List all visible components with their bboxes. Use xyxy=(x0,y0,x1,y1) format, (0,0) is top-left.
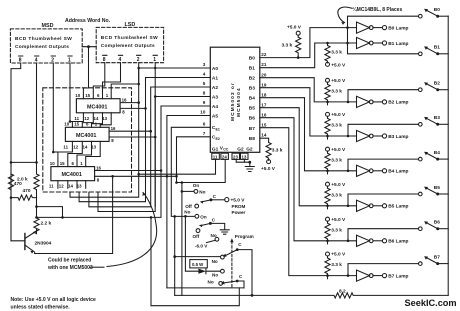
svg-text:+5.0 V: +5.0 V xyxy=(331,112,346,118)
svg-text:Note: Use +5.0 V on all logic: Note: Use +5.0 V on all logic device xyxy=(11,297,97,303)
wire rail continues to transistor base xyxy=(11,198,25,241)
svg-text:+5.0 V: +5.0 V xyxy=(231,197,246,203)
wire pin 22 B0 net xyxy=(260,16,418,59)
svg-text:17: 17 xyxy=(261,103,267,108)
svg-text:B0: B0 xyxy=(434,7,440,13)
svg-text:Program: Program xyxy=(235,234,254,239)
svg-text:B8: B8 xyxy=(249,136,255,142)
svg-text:No: No xyxy=(184,210,190,215)
wire node A4 staircase xyxy=(37,106,211,219)
svg-text:B7 Lamp: B7 Lamp xyxy=(388,273,408,279)
svg-text:MSD: MSD xyxy=(42,23,54,29)
wire node A0 staircase xyxy=(70,67,210,198)
svg-text:11: 11 xyxy=(213,154,218,159)
op-amp U3 MC4001 bottom xyxy=(49,161,102,189)
switch SW1 BCD thumbwheel MSD box xyxy=(10,29,82,64)
svg-text:5: 5 xyxy=(203,81,206,86)
svg-text:Complement Outputs: Complement Outputs xyxy=(15,44,69,50)
wire MSD 8-bar stub to left rail xyxy=(11,63,21,241)
wire program feed vertical xyxy=(173,215,220,295)
node SeekIC watermark xyxy=(405,298,457,308)
node Note text xyxy=(11,297,97,311)
svg-text:2.0 k: 2.0 k xyxy=(17,177,28,183)
resistor R B1 pull-up 3.3k xyxy=(325,43,346,69)
switch S2 ground switch xyxy=(184,210,215,239)
svg-text:B4: B4 xyxy=(249,96,255,102)
wire pin 23 to ground node xyxy=(236,159,250,162)
svg-text:18: 18 xyxy=(261,92,267,97)
svg-text:4: 4 xyxy=(119,57,122,63)
resistor R B6 pull-up 3.3k xyxy=(325,217,346,244)
switch SW2 BCD thumbwheel LSD box xyxy=(96,27,163,63)
wire node A5 staircase to 2.2k xyxy=(167,116,210,288)
wire pin 19 B3 net xyxy=(260,88,418,138)
svg-text:B5 Lamp: B5 Lamp xyxy=(388,204,408,210)
svg-text:BCD Thumbwheel SW: BCD Thumbwheel SW xyxy=(15,36,72,42)
svg-text:16: 16 xyxy=(96,165,101,170)
wire pin 11 under chip xyxy=(137,159,215,175)
svg-text:470: 470 xyxy=(23,188,31,194)
svg-text:A3: A3 xyxy=(212,94,218,100)
wire pin 13 to ground node xyxy=(244,159,251,163)
wire U3 output 8 to node A5 xyxy=(95,175,178,178)
svg-text:3.3 k: 3.3 k xyxy=(331,89,342,95)
svg-text:MCM5003 or: MCM5003 or xyxy=(230,82,236,121)
wire node CE2 to Vcc rail xyxy=(175,137,210,184)
svg-text:15: 15 xyxy=(74,122,79,127)
op-amp G2 buffer B2 lamp xyxy=(357,96,409,107)
svg-text:Off: Off xyxy=(193,234,200,239)
svg-text:B5: B5 xyxy=(249,106,255,112)
svg-text:+5.0 V: +5.0 V xyxy=(331,252,346,258)
svg-text:3.3 k: 3.3 k xyxy=(331,123,342,129)
svg-text:B1: B1 xyxy=(249,65,255,71)
svg-text:¼MC14B9L, 8 Places: ¼MC14B9L, 8 Places xyxy=(353,6,403,13)
svg-text:14: 14 xyxy=(94,116,99,121)
wire pin 16 B6 net xyxy=(260,118,418,242)
svg-text:G2: G2 xyxy=(237,146,244,152)
op-amp G3 buffer B3 lamp xyxy=(357,130,409,141)
svg-text:13: 13 xyxy=(242,154,247,159)
node Program dashed gang line xyxy=(230,234,254,288)
svg-text:14: 14 xyxy=(68,184,73,189)
wire MSD 1-bar stub to MC4001 U2 pin 10 xyxy=(69,63,71,122)
wire pin 21 B1 net xyxy=(260,42,418,68)
wire resistor node link xyxy=(37,207,63,218)
svg-text:Complement Outputs: Complement Outputs xyxy=(101,43,155,49)
svg-text:9: 9 xyxy=(203,100,206,105)
svg-text:On: On xyxy=(200,215,207,220)
resistor R B5 pull-up 3.3k xyxy=(325,182,346,209)
svg-text:G1: G1 xyxy=(212,146,219,152)
switch S1 PROM power on-off xyxy=(181,183,246,215)
svg-text:MC4001: MC4001 xyxy=(62,172,82,178)
svg-text:B6: B6 xyxy=(434,220,440,226)
svg-text:B3: B3 xyxy=(434,115,440,121)
svg-text:16: 16 xyxy=(111,126,116,131)
svg-text:10: 10 xyxy=(75,93,80,98)
ground symbol below chip xyxy=(245,162,254,171)
switch S B5 xyxy=(419,185,449,196)
svg-text:B7: B7 xyxy=(249,126,255,132)
wire U3 output 16 to node A4 xyxy=(95,169,163,172)
svg-text:1: 1 xyxy=(153,57,156,63)
wire LSD 4-bar stub to MC4001 U1 pin 6 xyxy=(103,63,121,99)
svg-text:Could be replaced: Could be replaced xyxy=(48,258,91,264)
svg-text:-6.0 V: -6.0 V xyxy=(195,244,208,249)
svg-text:B1 Lamp: B1 Lamp xyxy=(388,41,408,47)
svg-text:20: 20 xyxy=(261,72,267,77)
svg-text:B3: B3 xyxy=(249,86,255,92)
svg-text:A4: A4 xyxy=(212,104,218,110)
svg-text:B5: B5 xyxy=(434,185,440,191)
op-amp U1 MC4001 top xyxy=(74,93,127,121)
switch S B0 xyxy=(419,7,449,18)
switch S B4 xyxy=(419,150,449,161)
svg-text:MCM5004: MCM5004 xyxy=(236,87,242,117)
switch S5 program lower xyxy=(208,274,245,288)
svg-text:No: No xyxy=(199,190,205,195)
wire bottom programming bus xyxy=(167,287,244,289)
node MC14B9L label with arrow xyxy=(338,6,403,25)
wire right program bus xyxy=(447,16,449,295)
svg-text:B2 Lamp: B2 Lamp xyxy=(388,100,408,106)
ground symbol S2 xyxy=(210,223,229,234)
resistor R 0.5 W label box xyxy=(190,260,208,268)
wire S1 rail from Vcc line xyxy=(181,183,183,296)
svg-text:SeekIC.com: SeekIC.com xyxy=(405,298,457,308)
wire node CE1 to PROM power switch xyxy=(171,127,210,216)
svg-text:Address Word No.: Address Word No. xyxy=(65,18,111,24)
node MSD label xyxy=(42,23,54,29)
svg-text:B2: B2 xyxy=(249,76,255,82)
wire between boxes with junction xyxy=(82,45,96,98)
svg-text:10: 10 xyxy=(64,122,69,127)
svg-text:Power: Power xyxy=(232,210,246,215)
svg-text:21: 21 xyxy=(261,62,267,67)
svg-text:B0 Lamp: B0 Lamp xyxy=(388,25,408,31)
wire pin 15 B7 net xyxy=(260,128,418,277)
svg-text:4: 4 xyxy=(203,72,206,77)
svg-text:3.3 k: 3.3 k xyxy=(331,227,342,233)
svg-text:11: 11 xyxy=(49,184,54,189)
svg-text:B3 Lamp: B3 Lamp xyxy=(388,134,408,140)
svg-text:+5.0 V: +5.0 V xyxy=(331,78,346,84)
switch S B2 xyxy=(419,81,449,92)
wire pin 17 B5 net xyxy=(260,108,418,207)
op-amp G1 buffer B1 lamp xyxy=(357,37,409,48)
svg-text:14: 14 xyxy=(83,144,88,149)
wire node A3 staircase to resistor node xyxy=(98,95,210,211)
resistor 470 vertical left xyxy=(8,162,22,197)
svg-text:12: 12 xyxy=(73,144,78,149)
op-amp G0 buffer B0 lamp xyxy=(357,22,409,33)
diode D1 xyxy=(184,215,224,278)
switch S B1 xyxy=(419,45,449,56)
resistor R B2 pull-up 3.3k xyxy=(325,78,346,105)
wire U2 outputs to U3 inputs xyxy=(52,141,100,166)
node Could be replaced note with arrow xyxy=(47,193,157,271)
wire pin 24 Vcc to PROM power switch rail xyxy=(177,159,226,183)
op-amp U2 MC4001 middle xyxy=(63,122,116,150)
svg-text:with one MCM5003: with one MCM5003 xyxy=(47,265,93,271)
wire pin 20 B2 net xyxy=(260,78,418,104)
resistor 2.0k vertical xyxy=(17,162,39,206)
wire MSD 4-bar stub down to resistor node xyxy=(36,63,38,162)
svg-text:+5.0 V: +5.0 V xyxy=(331,147,346,153)
svg-text:3.3 k: 3.3 k xyxy=(331,157,342,163)
wire U2 output 16 to node A2 xyxy=(109,130,152,133)
svg-text:15: 15 xyxy=(85,93,90,98)
wire LSD 8-bar stub to MC4001 U1 pin 10 xyxy=(93,63,105,99)
svg-text:24: 24 xyxy=(222,154,227,159)
svg-text:+5.0 V: +5.0 V xyxy=(331,63,346,69)
svg-text:11: 11 xyxy=(63,144,68,149)
svg-text:B1: B1 xyxy=(434,45,440,51)
svg-text:8: 8 xyxy=(103,57,106,63)
op-amp G6 buffer B6 lamp xyxy=(357,235,409,246)
wire node A1 staircase xyxy=(79,78,210,202)
resistor R B8 pull-up 3.3k xyxy=(260,138,283,172)
resistor R B3 pull-up 3.3k xyxy=(325,112,346,139)
transistor Q1 2N3904 xyxy=(25,230,52,254)
svg-text:22: 22 xyxy=(261,52,267,57)
svg-text:0.5 W: 0.5 W xyxy=(192,262,204,267)
resistor 2.2k vertical xyxy=(34,205,52,233)
svg-text:10: 10 xyxy=(50,161,55,166)
svg-text:3.3 k: 3.3 k xyxy=(272,148,283,154)
svg-text:16: 16 xyxy=(261,113,267,118)
wire U3 bottom pin stubs xyxy=(58,181,86,189)
wire top horizontal to resistor node xyxy=(10,161,38,164)
svg-text:2: 2 xyxy=(137,57,140,63)
switch S4 program upper xyxy=(212,242,254,297)
switch S B3 xyxy=(419,115,449,126)
svg-text:B4 Lamp: B4 Lamp xyxy=(388,169,408,175)
svg-text:3.3 k: 3.3 k xyxy=(282,43,293,49)
svg-text:19: 19 xyxy=(261,82,267,87)
switch S3 -6V selector xyxy=(195,233,219,249)
switch S B6 xyxy=(419,220,449,231)
op-amp G4 buffer B4 lamp xyxy=(357,165,409,176)
wire MSD 2-bar stub to MC4001 U3 pin 10 xyxy=(52,63,54,152)
wire U1 output 16 to node A0 xyxy=(120,101,140,104)
node LSD label xyxy=(125,22,136,28)
svg-text:2.2 k: 2.2 k xyxy=(41,221,52,227)
svg-text:15: 15 xyxy=(60,161,65,166)
node Address Word No. label xyxy=(65,18,111,24)
svg-text:16: 16 xyxy=(122,97,127,102)
wire U1 output 8 to node A1 xyxy=(120,107,147,110)
svg-text:3.3 k: 3.3 k xyxy=(331,262,342,268)
op-amp G7 buffer B7 lamp xyxy=(357,270,409,281)
resistor R B4 pull-up 3.3k xyxy=(325,147,346,174)
svg-text:MC4001: MC4001 xyxy=(76,133,96,139)
svg-text:+5.0 V: +5.0 V xyxy=(287,25,302,31)
svg-text:12: 12 xyxy=(59,184,64,189)
svg-text:15: 15 xyxy=(261,123,267,128)
op-amp U4 MCM5003 PROM xyxy=(200,47,267,159)
wire lower return bus xyxy=(151,288,239,306)
svg-text:3.3 k: 3.3 k xyxy=(331,192,342,198)
svg-text:A2: A2 xyxy=(212,85,218,91)
svg-text:B2: B2 xyxy=(434,81,440,87)
svg-text:+5.0 V: +5.0 V xyxy=(261,166,276,172)
switch S B7 xyxy=(419,254,449,265)
svg-text:8.2: 8.2 xyxy=(339,288,346,294)
wire pin 18 B4 net xyxy=(260,98,418,172)
svg-text:unless stated otherwise.: unless stated otherwise. xyxy=(11,305,71,311)
svg-text:11: 11 xyxy=(74,116,79,121)
svg-text:B6 Lamp: B6 Lamp xyxy=(388,239,408,245)
node dashed replacement outline around gates xyxy=(43,88,132,192)
svg-text:BCD Thumbwheel SW: BCD Thumbwheel SW xyxy=(101,35,158,41)
svg-text:B6: B6 xyxy=(249,116,255,122)
svg-text:G2: G2 xyxy=(246,146,253,152)
svg-text:+5.0 V: +5.0 V xyxy=(331,217,346,223)
wire U2 output 8 to node A3 xyxy=(109,136,156,139)
svg-text:7: 7 xyxy=(203,131,206,136)
svg-text:B4: B4 xyxy=(434,150,440,156)
svg-text:+5.0 V: +5.0 V xyxy=(331,182,346,188)
svg-text:E1: E1 xyxy=(216,128,220,132)
svg-text:A0: A0 xyxy=(212,66,218,72)
svg-text:CC: CC xyxy=(223,148,229,152)
svg-text:3.3 k: 3.3 k xyxy=(331,50,342,56)
svg-text:A1: A1 xyxy=(212,75,218,81)
svg-text:B0: B0 xyxy=(249,55,255,61)
svg-text:10: 10 xyxy=(200,110,206,115)
resistor R B7 pull-up 3.3k xyxy=(325,252,346,279)
svg-text:E2: E2 xyxy=(216,137,220,141)
svg-text:MC4001: MC4001 xyxy=(87,104,107,110)
svg-text:B7: B7 xyxy=(434,254,440,260)
svg-text:2N3904: 2N3904 xyxy=(35,241,52,247)
wire emitter riser to gate output wire xyxy=(35,175,114,254)
op-amp G5 buffer B5 lamp xyxy=(357,200,409,211)
svg-text:6: 6 xyxy=(203,121,206,126)
svg-text:Off: Off xyxy=(185,204,192,209)
resistor R B0 pull-up 3.3k xyxy=(282,25,302,58)
svg-text:No: No xyxy=(208,280,214,285)
svg-text:No: No xyxy=(212,259,218,264)
svg-text:12: 12 xyxy=(84,116,89,121)
wire LSD 1-bar stub becomes node A3 vertical xyxy=(154,63,156,207)
svg-text:23: 23 xyxy=(233,154,238,159)
wire LSD 2-bar stub to MC4001 U1 pin 1 and node A0 vertical xyxy=(111,63,140,99)
resistor R 8.2 in bottom bus xyxy=(175,288,449,298)
svg-text:A5: A5 xyxy=(212,113,218,119)
wire node A2 staircase xyxy=(89,87,210,207)
wire U1 outputs to U2 inputs xyxy=(69,113,112,128)
svg-text:3: 3 xyxy=(203,62,206,67)
svg-text:14: 14 xyxy=(261,133,267,138)
wire long vertical to bottom bus xyxy=(150,217,152,305)
svg-text:No: No xyxy=(212,273,218,278)
svg-text:On: On xyxy=(193,183,200,188)
svg-text:8: 8 xyxy=(203,91,206,96)
resistor 470 horizontal xyxy=(10,188,37,200)
svg-text:PROM: PROM xyxy=(232,204,246,209)
